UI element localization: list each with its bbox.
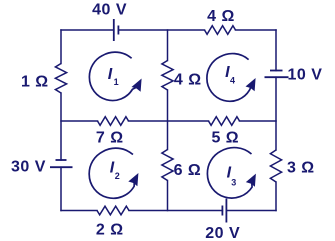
wire right lower (3ohm resistor to node C) (275, 182, 277, 211)
wire bottom-middle (2ohm resistor to 20V battery) (129, 210, 222, 212)
svg-text:3: 3 (231, 178, 236, 188)
resistor 1 ohm (left rail) (55, 64, 66, 94)
wire bottom-left (node D to 2ohm resistor) (61, 210, 97, 212)
mesh current I3 loop arrow (207, 148, 256, 199)
resistor 4 ohm (top wire) (205, 26, 236, 35)
wire top-right (4ohm resistor to node B) (236, 29, 277, 31)
battery 30V long plate (50, 166, 73, 168)
battery 20V long plate (225, 199, 227, 223)
wire middle vertical lower stub (167, 181, 169, 211)
wire middle vertical upper stub (167, 30, 169, 61)
wire right middle (10V battery to 3ohm resistor) (275, 77, 277, 150)
battery 20V short plate (221, 206, 223, 216)
svg-text:3 Ω: 3 Ω (287, 160, 315, 177)
battery 10V long plate (265, 76, 289, 78)
svg-text:4 Ω: 4 Ω (207, 8, 235, 25)
svg-text:I: I (108, 66, 113, 83)
svg-text:40 V: 40 V (92, 1, 127, 18)
mesh current label I3 (227, 165, 237, 188)
resistor 4 ohm (middle vertical upper) (162, 61, 173, 91)
svg-text:4 Ω: 4 Ω (174, 71, 202, 88)
wire top-middle (40V battery to 4ohm resistor) (118, 29, 204, 31)
svg-text:20 V: 20 V (205, 225, 240, 241)
svg-text:30 V: 30 V (11, 158, 46, 175)
svg-text:1 Ω: 1 Ω (21, 73, 49, 90)
mesh current I4 loop arrow (207, 54, 256, 102)
wire right upper stub (node B to 10V battery) (275, 30, 277, 71)
mesh current label I4 (225, 64, 235, 86)
wire mid-row left (left rail to 7ohm resistor) (61, 120, 98, 122)
battery 30V short plate (56, 159, 67, 161)
resistor 5 ohm (middle row right) (209, 117, 240, 126)
resistor 7 ohm (middle row left) (98, 117, 129, 126)
wire mid-row center (7ohm to 5ohm resistor) (129, 120, 209, 122)
svg-text:10 V: 10 V (288, 67, 323, 84)
svg-text:5 Ω: 5 Ω (211, 130, 239, 147)
svg-text:6 Ω: 6 Ω (174, 162, 202, 179)
svg-text:1: 1 (114, 77, 119, 87)
mesh current label I2 (110, 160, 120, 181)
mesh current I2 loop arrow (89, 148, 138, 198)
wire left upper stub (node A to 1ohm resistor) (60, 30, 62, 64)
mesh current I1 loop arrow (89, 52, 141, 100)
mesh current label I1 (108, 66, 119, 87)
resistor 3 ohm (right rail) (270, 150, 281, 182)
wire bottom-right (20V battery to node C) (226, 210, 276, 212)
battery 10V short plate (270, 70, 283, 72)
svg-text:2: 2 (115, 171, 120, 181)
resistor 2 ohm (bottom wire) (97, 206, 129, 215)
resistor 6 ohm (middle vertical lower) (162, 150, 173, 181)
wire left lower (30V battery to node D) (60, 167, 62, 210)
wire left middle (1ohm resistor to 30V battery) (60, 93, 62, 160)
battery 40V long plate (113, 19, 115, 41)
battery 40V short plate (117, 26, 119, 35)
wire middle vertical center (4ohm to 6ohm resistor) (167, 90, 169, 150)
svg-text:2 Ω: 2 Ω (96, 222, 124, 239)
wire top-left (node A to 40V battery) (61, 29, 114, 31)
wire mid-row right (5ohm resistor to right rail) (240, 120, 277, 122)
svg-text:7 Ω: 7 Ω (96, 130, 124, 147)
svg-text:4: 4 (230, 75, 235, 85)
